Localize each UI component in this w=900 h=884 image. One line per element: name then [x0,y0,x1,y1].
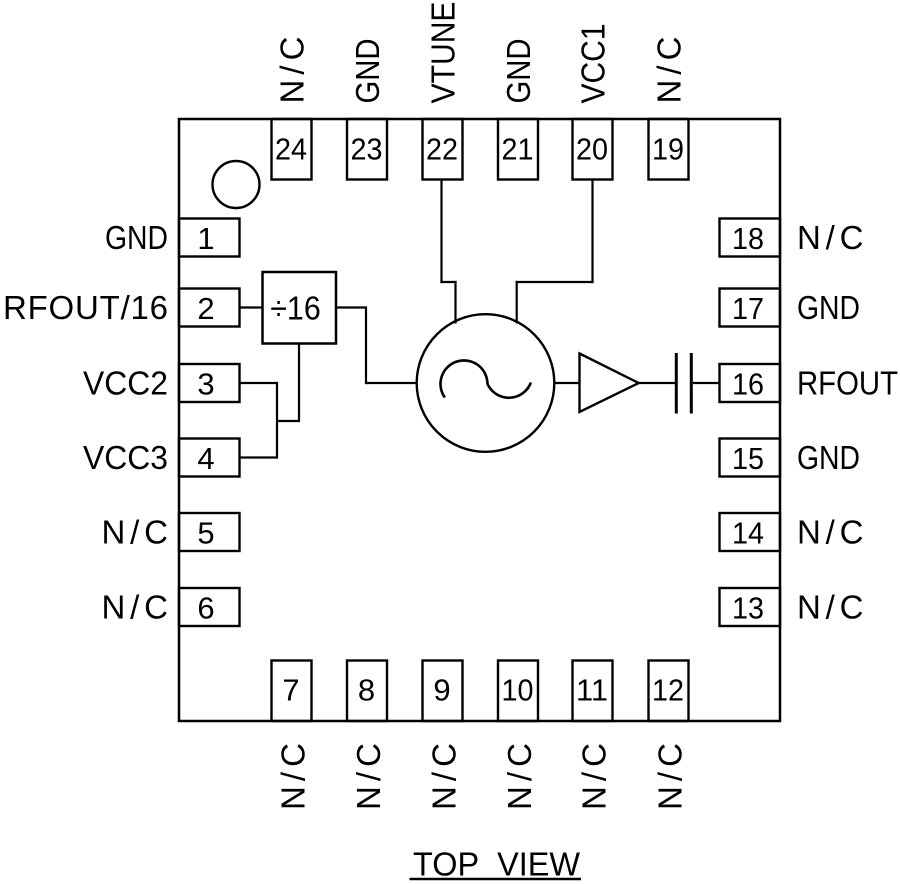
wire VCC2-VCC3 vertical tie [276,382,278,459]
svg-text:N/C: N/C [797,589,864,626]
svg-text:15: 15 [732,441,764,476]
wire VCO to amplifier [554,382,579,384]
svg-text:N/C: N/C [102,514,169,551]
svg-text:9: 9 [433,673,450,708]
wire tie to divider jog [276,420,299,422]
svg-text:VCC2: VCC2 [83,365,168,402]
svg-text:N/C: N/C [426,743,463,810]
svg-text:GND: GND [500,39,537,104]
svg-text:TOP VIEW: TOP VIEW [413,846,581,883]
svg-text:13: 13 [732,590,764,625]
pin 20 pad [573,119,613,180]
svg-text:GND: GND [797,439,860,476]
svg-text:VCC3: VCC3 [83,439,168,476]
capacitor C1 right plate [690,353,693,414]
pin 21 pad [498,119,538,180]
pin 22 pad [423,119,463,180]
svg-text:N/C: N/C [350,743,387,810]
pin 10 pad [498,661,538,722]
pin 8 pad [347,661,387,722]
title underline [410,878,582,880]
wire VCC1 into VCO [516,281,518,324]
svg-text:17: 17 [732,291,764,326]
svg-text:2: 2 [197,291,214,326]
svg-text:GND: GND [349,39,386,104]
wire pin3 stub [240,382,278,384]
wire pin22 VTUNE down [440,179,442,283]
svg-text:VTUNE: VTUNE [425,2,462,104]
wire VCC1 jog [516,281,594,283]
svg-text:16: 16 [732,366,764,401]
pin 19 pad [649,119,689,180]
svg-text:21: 21 [502,132,534,167]
svg-text:22: 22 [426,132,458,167]
wire capacitor to pin16 [693,382,720,384]
pin 7 pad [272,661,312,722]
pin 16 pad [720,364,781,402]
wire VTUNE jog [440,281,456,283]
amplifier buffer triangle [580,354,639,413]
svg-text:÷16: ÷16 [270,290,321,327]
svg-text:11: 11 [576,673,608,708]
wire divider bottom vertical [298,344,300,423]
svg-text:12: 12 [652,673,684,708]
svg-text:20: 20 [576,132,608,167]
svg-text:8: 8 [358,673,375,708]
svg-text:4: 4 [197,441,214,476]
svg-text:14: 14 [732,515,764,550]
svg-text:N/C: N/C [275,743,312,810]
pin 14 pad [720,513,781,551]
pin 1 indicator dot [213,161,260,208]
wire into VCO left [366,382,417,384]
svg-text:23: 23 [351,132,383,167]
pin 17 pad [720,289,781,327]
wire VTUNE into VCO [454,281,456,324]
pin 9 pad [423,661,463,722]
svg-text:N/C: N/C [797,514,864,551]
svg-text:N/C: N/C [274,37,311,104]
svg-text:24: 24 [275,132,307,167]
svg-text:GND: GND [105,219,168,256]
pin 3 pad [179,364,240,402]
svg-text:7: 7 [282,673,299,708]
wire divider output horizontal [336,306,366,308]
svg-text:5: 5 [197,515,214,550]
wire divider output vertical [365,306,367,384]
pin 24 pad [272,119,312,180]
pin 5 pad [179,513,240,551]
pin 4 pad [179,439,240,477]
svg-text:1: 1 [197,221,214,256]
wire amplifier to capacitor [639,382,677,384]
svg-text:GND: GND [797,289,860,326]
pin 1 pad [179,219,240,257]
package outline U1 (QFN-24 body) [179,119,780,721]
oscillator sine wave glyph [441,360,531,397]
svg-text:N/C: N/C [576,743,613,810]
svg-text:N/C: N/C [501,743,538,810]
svg-text:N/C: N/C [651,37,688,104]
svg-text:VCC1: VCC1 [575,24,612,104]
pin 13 pad [720,588,781,626]
pin 15 pad [720,439,781,477]
svg-text:RFOUT/16: RFOUT/16 [3,289,168,326]
svg-text:N/C: N/C [102,589,169,626]
capacitor C1 left plate [675,353,678,414]
pin 23 pad [347,119,387,180]
svg-text:6: 6 [197,590,214,625]
oscillator VCO symbol (circle) [417,314,555,452]
svg-text:3: 3 [197,366,214,401]
wire pin20 VCC1 down [591,179,593,283]
pin 6 pad [179,588,240,626]
pin 2 pad [179,289,240,327]
svg-text:RFOUT: RFOUT [797,365,898,402]
wire pin2 to divider [240,306,263,308]
svg-text:18: 18 [732,221,764,256]
svg-text:19: 19 [652,132,684,167]
divider block /16 [263,272,337,344]
pin 11 pad [573,661,613,722]
svg-text:N/C: N/C [797,219,864,256]
wire pin4 stub [240,456,278,458]
svg-text:N/C: N/C [652,743,689,810]
pin 12 pad [649,661,689,722]
pin 18 pad [720,219,781,257]
svg-text:10: 10 [502,673,534,708]
